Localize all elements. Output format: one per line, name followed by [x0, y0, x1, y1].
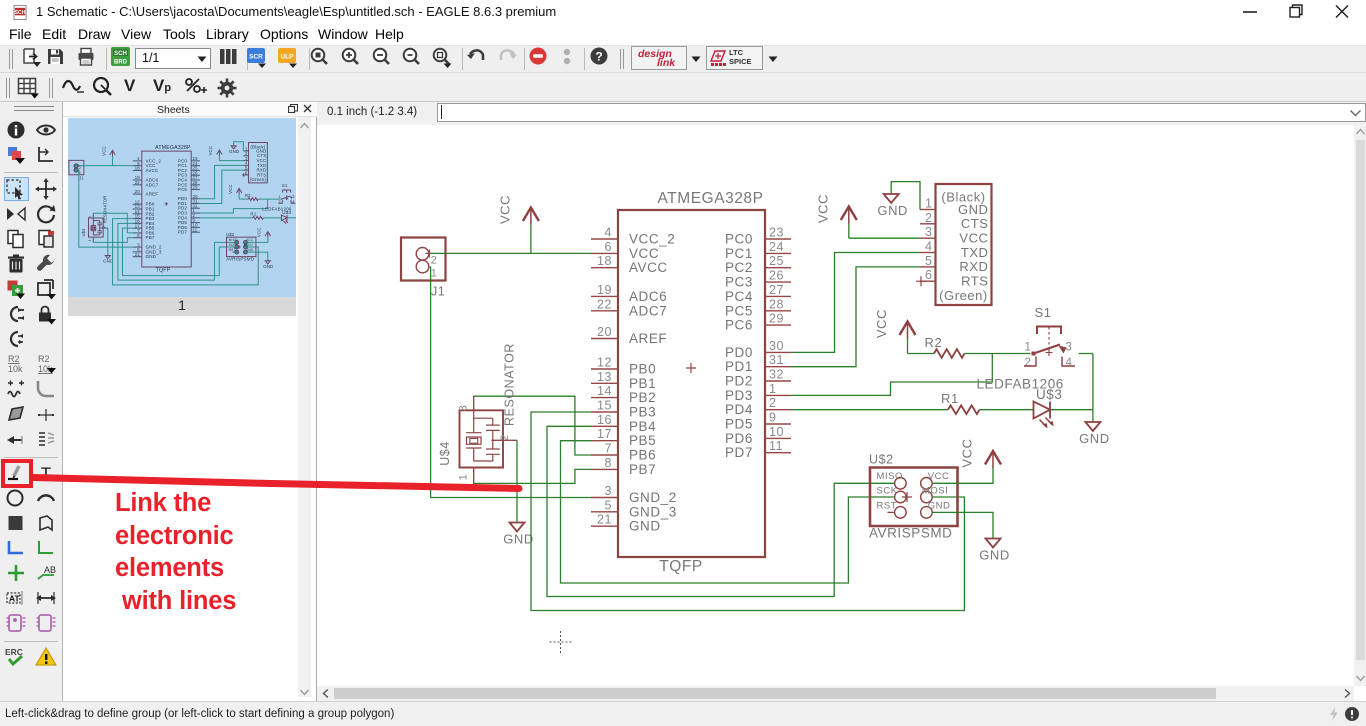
window controls	[1235, 2, 1361, 21]
wire LED cathode to GND net	[1050, 409, 1093, 411]
switch S1 lever	[1034, 345, 1061, 354]
FTDI pin 2 CTS	[920, 223, 936, 225]
LED U$3 emission arrows	[1040, 418, 1053, 427]
switch S1 pin3 arrow contact	[1059, 346, 1067, 354]
tool device	[5, 612, 27, 634]
ISP header U$2 pad MOSI	[921, 491, 933, 503]
sheet selector combobox	[135, 48, 211, 69]
ground symbol below resonator	[510, 523, 525, 532]
schematic canvas	[317, 125, 1354, 686]
sheets panel header	[63, 102, 317, 702]
tool split point	[35, 404, 57, 426]
designlink button	[631, 46, 687, 70]
tool junction	[5, 562, 27, 584]
switch S1 pin2 bracket	[1024, 357, 1036, 367]
IC U1 pin 21 GND	[591, 525, 618, 527]
tool attribute	[5, 587, 27, 609]
wire net SW: U1 pin1 PD3 to switch S1	[791, 354, 992, 396]
tool erc	[5, 646, 27, 668]
wire net GND: J1 pin1 down and to U1 pin3 GND_2	[430, 267, 591, 498]
tool bus	[5, 537, 27, 559]
IC U1 pin 30 PD0	[765, 351, 791, 353]
IC U1 pin 16 PB4	[591, 425, 618, 427]
IC U1 pin 19 ADC6	[591, 295, 618, 297]
tool arc	[35, 487, 57, 509]
tool mirror	[5, 203, 27, 225]
annotation text	[115, 487, 315, 618]
sine tool icon	[61, 77, 87, 97]
status bar	[0, 701, 1366, 726]
tool smash	[5, 378, 27, 400]
IC U1 pin 10 PD6	[765, 437, 791, 439]
resonator U$4 pin 2 stub	[491, 439, 517, 441]
coordinate display and command bar background	[317, 102, 1366, 125]
wire net GND: resonator pin2 down to ground	[516, 440, 518, 522]
supply symbol VCC near U$2	[992, 451, 994, 468]
wire R1 to LED anode	[980, 409, 1034, 411]
IC U1 pin 32 PD2	[765, 380, 791, 382]
IC U1 pin 22 ADC7	[591, 310, 618, 312]
IC U1 pin 29 PC6	[765, 324, 791, 326]
IC U1 pin 14 PB2	[591, 397, 618, 399]
ISP header U$2 pad GND	[921, 507, 933, 519]
tool paste	[35, 228, 57, 250]
sheet thumbnail (blue)	[68, 118, 296, 297]
wire net LED: U1 pin2 PD4 to resistor R1	[791, 409, 948, 411]
ground symbol below U$2	[986, 539, 1001, 548]
left tool sidebar background	[0, 102, 63, 702]
IC U1 pin 15 PB3	[591, 411, 618, 413]
IC U1 origin cross	[686, 363, 696, 373]
IC U1 pin 24 PC1	[765, 252, 791, 254]
ISP header U$2 pad VCC	[921, 478, 933, 490]
tool delete	[5, 253, 27, 275]
FTDI pin 1 GND	[920, 209, 936, 211]
IC U1 pin 12 PB0	[591, 368, 618, 370]
switch S1 dashed actuator line	[1048, 327, 1050, 350]
LTspice button	[706, 46, 763, 70]
wire net VCC to R2	[908, 353, 935, 355]
IC U1 pin 28 PC5	[765, 310, 791, 312]
switch S1 pin1 contact dot	[1032, 352, 1036, 356]
FTDI pin 6 unconnected cross	[916, 276, 926, 286]
IC U1 pin 7 PB6	[591, 454, 618, 456]
ground symbol below S1/LED	[1085, 422, 1100, 431]
tool polygon outline	[35, 512, 57, 534]
main schematic drawing	[317, 125, 1354, 686]
IC U1 pin 9 PD5	[765, 423, 791, 425]
wire net XTAL2: resonator pin1 to U1 pin8 PB7	[474, 469, 591, 483]
IC U1 pin 1 PD3	[765, 394, 791, 396]
grid icon	[17, 77, 41, 99]
ISP header U$2 RST lead	[888, 511, 895, 513]
gear icon	[216, 77, 238, 99]
tool value	[35, 353, 57, 375]
supply symbol VCC near FTDI	[848, 207, 850, 224]
IC U1 pin 18 AVCC	[591, 267, 618, 269]
command input combobox	[437, 103, 1366, 122]
wire U$2 GND pad to ground	[932, 512, 993, 538]
LED U$3 diode symbol	[1034, 402, 1051, 419]
ISP header U$2 pad SCK	[895, 491, 907, 503]
wire net MOSI: U1 pin15 PB3 to U$2 MOSI	[531, 412, 964, 611]
tool mark	[35, 144, 57, 166]
switch S1 pin4 bracket	[1062, 357, 1075, 367]
wire R2 to S1 pin1	[965, 353, 1031, 355]
toolbar row 1	[0, 45, 1366, 73]
Vp icon	[153, 76, 171, 96]
canvas vertical scrollbar	[1354, 125, 1366, 686]
IC U1 pin 26 PC3	[765, 281, 791, 283]
wire net RXD: U1 pin30 PD0 to FTDI TXD	[791, 253, 920, 353]
wire VCC riser at x531	[530, 225, 532, 254]
FTDI pin 3 VCC	[920, 237, 936, 239]
tool move	[35, 178, 57, 200]
wire net TXD: U1 pin31 PD1 to FTDI RXD	[791, 267, 920, 367]
tool change	[35, 253, 57, 275]
tool errors	[35, 646, 57, 668]
probe magnifier icon	[91, 76, 117, 98]
wire net SCK: U1 pin17 PB5 to U$2 SCK	[561, 441, 895, 583]
resonator U$4 crystal internals	[466, 410, 500, 461]
tool circle	[5, 487, 27, 509]
ISP header U$2 origin cross	[902, 492, 912, 502]
IC U1 pin 25 PC2	[765, 267, 791, 269]
V icon	[124, 76, 135, 96]
tool lock	[35, 303, 57, 325]
resistor R1 zigzag	[948, 405, 980, 414]
resonator U$4 pin 3 stub	[473, 396, 475, 410]
ISP header U$2 pad MISO	[895, 478, 907, 490]
IC U1 pin 4 VCC_2	[591, 238, 618, 240]
sheets panel scrollbar	[298, 117, 311, 697]
IC U1 pin 20 AREF	[591, 338, 618, 340]
tool replace	[35, 278, 57, 300]
wire net XTAL1: resonator pin3 to U1 pin7 PB6	[474, 396, 591, 455]
wire VCC riser at R2	[907, 338, 909, 354]
tool rotate	[35, 203, 57, 225]
tool name	[5, 353, 27, 375]
netclass icon	[184, 77, 210, 99]
tool gateswap	[5, 328, 27, 350]
supply symbol VCC near R2	[907, 322, 909, 339]
switch S1 top bracket	[1037, 327, 1061, 335]
IC U1 pin 2 PD4	[765, 409, 791, 411]
ground symbol above FTDI	[884, 194, 899, 203]
IC U1 pin 3 GND_2	[591, 497, 618, 499]
wire net MISO: U1 pin16 PB4 to U$2 MISO	[547, 426, 895, 596]
tool pinswap	[5, 303, 27, 325]
tool show	[35, 119, 57, 141]
resonator U$4 body	[460, 410, 504, 467]
sheet thumbnail mini schematic	[68, 118, 296, 297]
wire net VCC: J1 pin2 to U1 pin6 VCC	[430, 252, 592, 254]
tool split	[35, 429, 57, 451]
FTDI pin 5 RXD	[920, 266, 936, 268]
connector J1 body	[401, 238, 446, 281]
IC U1 pin 11 PD7	[765, 452, 791, 454]
tool rect	[5, 512, 27, 534]
FTDI pin 4 TXD	[920, 252, 936, 254]
wire S1 pin3 to GND riser	[1079, 354, 1093, 423]
selected tool highlight	[4, 177, 29, 201]
tool add part	[5, 278, 27, 300]
IC U1 pin 5 GND_3	[591, 511, 618, 513]
window title bar	[0, 0, 1366, 22]
tool miter	[35, 378, 57, 400]
FTDI header connector body	[936, 184, 992, 305]
sheet number bar	[68, 297, 296, 316]
connector J1 pin 1 pad	[416, 260, 429, 273]
tool device outline	[35, 612, 57, 634]
resistor R2 zigzag	[934, 349, 965, 358]
tool info	[5, 119, 27, 141]
tool line (highlighted)	[5, 462, 27, 484]
IC U1 pin 23 PC0	[765, 238, 791, 240]
wire FTDI pin1 to ground	[891, 182, 920, 210]
IC U1 pin 8 PB7	[591, 468, 618, 470]
tool copy	[5, 228, 27, 250]
tool display layers	[5, 144, 27, 166]
menu bar	[0, 22, 1366, 45]
connector J1 pin 2 pad	[416, 248, 429, 261]
annotation red box around line tool	[1, 459, 33, 488]
sheet origin crosshair	[550, 631, 572, 653]
canvas horizontal scrollbar	[317, 686, 1354, 701]
IC U1 pin 13 PB1	[591, 382, 618, 384]
tool group select	[5, 178, 27, 200]
IC U1 pin 17 PB5	[591, 440, 618, 442]
wire U$2 VCC pad to supply	[932, 468, 993, 484]
IC U1 pin 6 VCC	[591, 252, 618, 254]
tool tag	[5, 429, 27, 451]
FTDI pin 6 RTS	[920, 280, 936, 282]
tool polygon	[5, 404, 27, 426]
ISP header U$2 pad RST	[895, 507, 907, 519]
wire net VCC to FTDI pin3	[849, 223, 920, 238]
IC U1 ATMEGA328P body	[618, 210, 765, 557]
tool text	[35, 462, 57, 484]
connector J1 pin 2 origin cross	[425, 249, 433, 257]
ISP header U$2 body	[870, 468, 958, 527]
IC U1 pin 31 PD1	[765, 366, 791, 368]
tool net	[35, 537, 57, 559]
tool label	[35, 562, 57, 584]
IC U1 pin 27 PC4	[765, 295, 791, 297]
supply symbol VCC near J1	[530, 208, 532, 225]
tool dimension	[35, 587, 57, 609]
toolbar row 2	[0, 73, 1366, 102]
resonator U$4 pin 1 stub	[473, 468, 475, 482]
